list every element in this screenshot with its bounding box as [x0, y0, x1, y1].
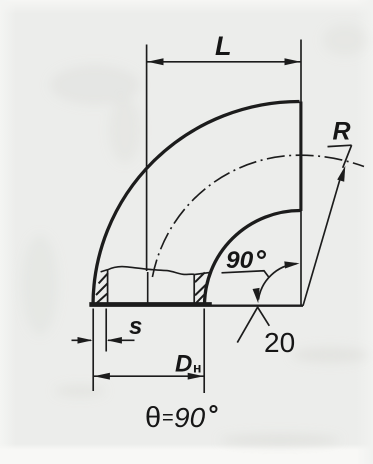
svg-text:н: н	[193, 360, 201, 376]
svg-text:90: 90	[174, 402, 206, 433]
svg-text:D: D	[175, 351, 192, 378]
svg-text:s: s	[129, 313, 142, 340]
svg-text:20: 20	[264, 327, 295, 358]
svg-text:θ: θ	[145, 402, 161, 434]
svg-text:=: =	[162, 407, 174, 429]
svg-text:R: R	[333, 118, 351, 146]
svg-text:90: 90	[226, 247, 254, 274]
svg-text:L: L	[215, 31, 232, 61]
